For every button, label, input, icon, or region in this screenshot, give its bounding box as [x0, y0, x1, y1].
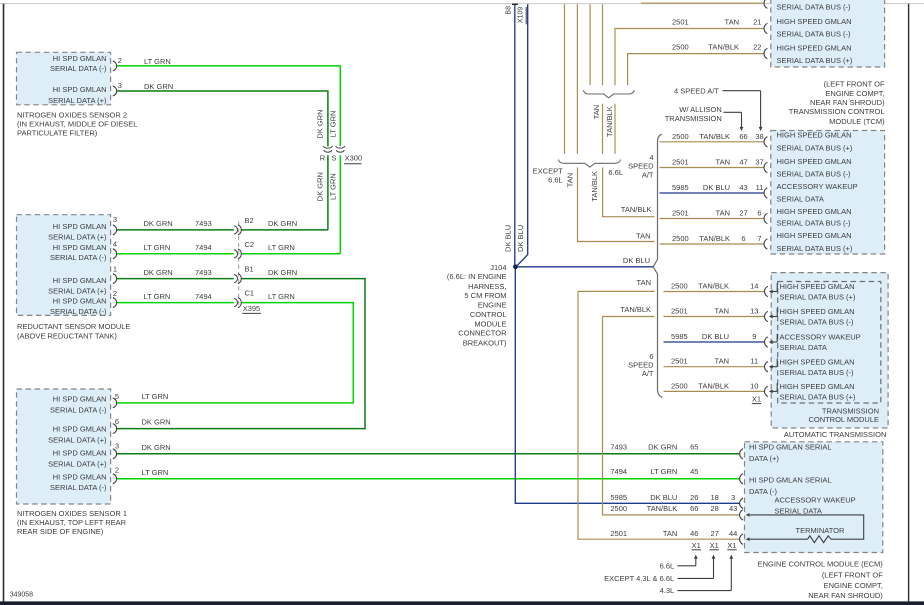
svg-text:TAN/BLK: TAN/BLK	[698, 281, 729, 290]
svg-text:A/T: A/T	[642, 369, 654, 378]
svg-text:HIGH SPEED GMLAN: HIGH SPEED GMLAN	[780, 282, 855, 291]
svg-text:HI SPD GMLAN: HI SPD GMLAN	[53, 296, 107, 305]
svg-text:SERIAL DATA BUS (+): SERIAL DATA BUS (+)	[780, 393, 856, 402]
svg-text:4 SPEED A/T: 4 SPEED A/T	[674, 86, 719, 95]
svg-text:43: 43	[729, 504, 737, 513]
svg-text:X1: X1	[692, 541, 701, 550]
svg-text:MODULE: MODULE	[474, 320, 506, 329]
svg-text:SERIAL DATA (-): SERIAL DATA (-)	[50, 483, 107, 492]
svg-text:TAN/BLK: TAN/BLK	[699, 234, 730, 243]
svg-text:DK GRN: DK GRN	[144, 219, 173, 228]
svg-text:ACCESSORY WAKEUP: ACCESSORY WAKEUP	[780, 333, 861, 342]
svg-text:2500: 2500	[672, 234, 689, 243]
svg-text:TAN/BLK: TAN/BLK	[605, 106, 614, 137]
svg-text:7493: 7493	[610, 442, 627, 451]
svg-text:X395: X395	[243, 304, 261, 313]
svg-text:SERIAL DATA (-): SERIAL DATA (-)	[50, 64, 107, 73]
svg-text:3: 3	[115, 442, 119, 451]
svg-text:10: 10	[750, 381, 758, 390]
svg-text:TAN: TAN	[663, 529, 677, 538]
svg-text:7493: 7493	[195, 219, 212, 228]
svg-text:TAN: TAN	[716, 158, 730, 167]
svg-text:SERIAL DATA (+): SERIAL DATA (+)	[48, 459, 107, 468]
svg-text:TAN: TAN	[715, 306, 729, 315]
svg-text:2501: 2501	[672, 18, 689, 27]
svg-text:SERIAL DATA BUS (+): SERIAL DATA BUS (+)	[777, 56, 853, 65]
svg-text:(IN EXHAUST, MIDDLE OF DIESEL: (IN EXHAUST, MIDDLE OF DIESEL	[17, 120, 137, 129]
svg-text:HIGH SPEED GMLAN: HIGH SPEED GMLAN	[777, 231, 852, 240]
svg-text:SPEED: SPEED	[628, 162, 654, 171]
svg-text:TAN/BLK: TAN/BLK	[621, 205, 652, 214]
svg-text:DATA (+): DATA (+)	[749, 454, 779, 463]
svg-text:5985: 5985	[610, 493, 627, 502]
svg-text:HI SPD GMLAN: HI SPD GMLAN	[53, 424, 107, 433]
svg-text:7494: 7494	[195, 243, 212, 252]
svg-text:HIGH SPEED GMLAN: HIGH SPEED GMLAN	[780, 357, 855, 366]
svg-text:DK BLU: DK BLU	[623, 256, 650, 265]
svg-text:27: 27	[711, 529, 719, 538]
svg-text:21: 21	[753, 18, 761, 27]
svg-text:DK GRN: DK GRN	[268, 268, 297, 277]
svg-text:7494: 7494	[195, 292, 212, 301]
svg-text:DK GRN: DK GRN	[144, 268, 173, 277]
svg-text:11: 11	[750, 357, 758, 366]
svg-text:(IN EXHAUST, TOP LEFT REAR: (IN EXHAUST, TOP LEFT REAR	[17, 518, 127, 527]
svg-text:NITROGEN OXIDES SENSOR 2: NITROGEN OXIDES SENSOR 2	[17, 111, 127, 120]
svg-text:DK GRN: DK GRN	[142, 443, 171, 452]
svg-text:TAN/BLK: TAN/BLK	[698, 381, 729, 390]
svg-text:(ABOVE REDUCTANT TANK): (ABOVE REDUCTANT TANK)	[17, 332, 117, 341]
svg-text:46: 46	[690, 529, 698, 538]
svg-text:HI SPD GMLAN: HI SPD GMLAN	[53, 85, 107, 94]
svg-text:PARTICULATE FILTER): PARTICULATE FILTER)	[17, 129, 98, 138]
svg-text:SERIAL DATA (+): SERIAL DATA (+)	[48, 287, 107, 296]
svg-text:ENGINE COMPT,: ENGINE COMPT,	[825, 89, 884, 98]
svg-text:2: 2	[118, 56, 122, 65]
svg-text:TAN: TAN	[715, 357, 729, 366]
svg-text:X1: X1	[727, 541, 736, 550]
svg-text:HIGH SPEED GMLAN: HIGH SPEED GMLAN	[777, 131, 852, 140]
svg-text:HI SPD GMLAN: HI SPD GMLAN	[53, 243, 107, 252]
svg-text:SERIAL DATA (+): SERIAL DATA (+)	[48, 232, 107, 241]
svg-text:TERMINATOR: TERMINATOR	[796, 526, 845, 535]
svg-text:4: 4	[113, 240, 117, 249]
svg-text:DK GRN: DK GRN	[648, 442, 677, 451]
svg-text:DK BLU: DK BLU	[650, 493, 677, 502]
svg-text:45: 45	[690, 467, 698, 476]
svg-text:349058: 349058	[10, 591, 33, 598]
svg-text:DATA (-): DATA (-)	[749, 487, 778, 496]
svg-text:W/ ALLISON: W/ ALLISON	[679, 105, 722, 114]
svg-text:X1: X1	[710, 541, 719, 550]
svg-text:SERIAL DATA (-): SERIAL DATA (-)	[50, 253, 107, 262]
svg-text:2501: 2501	[671, 357, 688, 366]
svg-text:5985: 5985	[672, 183, 689, 192]
svg-text:LT GRN: LT GRN	[328, 173, 337, 200]
svg-text:SERIAL DATA BUS (-): SERIAL DATA BUS (-)	[780, 368, 855, 377]
svg-text:2500: 2500	[671, 281, 688, 290]
svg-text:X109: X109	[518, 7, 525, 23]
svg-text:2501: 2501	[672, 209, 689, 218]
svg-text:(6.6L: IN ENGINE: (6.6L: IN ENGINE	[447, 272, 507, 281]
svg-text:B2: B2	[245, 216, 254, 225]
svg-text:HI SPD GMLAN: HI SPD GMLAN	[53, 222, 107, 231]
svg-text:HI SPD GMLAN SERIAL: HI SPD GMLAN SERIAL	[749, 476, 832, 485]
svg-text:ENGINE: ENGINE	[478, 301, 507, 310]
svg-text:HI SPD GMLAN SERIAL: HI SPD GMLAN SERIAL	[749, 443, 832, 452]
svg-text:ENGINE CONTROL MODULE (ECM): ENGINE CONTROL MODULE (ECM)	[758, 559, 884, 568]
svg-text:22: 22	[753, 43, 761, 52]
svg-text:6.6L: 6.6L	[608, 168, 623, 177]
svg-text:SERIAL DATA BUS (+): SERIAL DATA BUS (+)	[780, 293, 856, 302]
svg-text:DK BLU: DK BLU	[516, 225, 525, 252]
svg-text:HI SPD GMLAN: HI SPD GMLAN	[53, 54, 107, 63]
svg-text:37: 37	[755, 158, 763, 167]
svg-text:6.6L: 6.6L	[660, 561, 675, 570]
svg-text:CONTROL: CONTROL	[470, 310, 507, 319]
svg-text:DK GRN: DK GRN	[316, 172, 325, 201]
svg-text:X300: X300	[345, 154, 363, 163]
svg-text:R: R	[320, 154, 326, 163]
svg-text:9: 9	[752, 332, 756, 341]
svg-text:TAN: TAN	[636, 232, 650, 241]
svg-text:DK BLU: DK BLU	[504, 225, 513, 252]
svg-text:TRANSMISSION CONTROL: TRANSMISSION CONTROL	[789, 107, 885, 116]
svg-text:TAN/BLK: TAN/BLK	[620, 305, 651, 314]
svg-text:2500: 2500	[610, 504, 627, 513]
svg-text:7494: 7494	[610, 467, 627, 476]
svg-text:(LEFT FRONT OF: (LEFT FRONT OF	[824, 80, 885, 89]
svg-text:2500: 2500	[672, 132, 689, 141]
svg-text:CONTROL MODULE: CONTROL MODULE	[808, 415, 879, 424]
svg-text:MODULE (TCM): MODULE (TCM)	[829, 117, 885, 126]
svg-text:13: 13	[750, 306, 758, 315]
svg-text:SERIAL DATA BUS (+): SERIAL DATA BUS (+)	[777, 244, 853, 253]
svg-text:A/T: A/T	[642, 171, 654, 180]
svg-text:66: 66	[690, 504, 698, 513]
svg-text:TAN: TAN	[716, 209, 730, 218]
svg-text:SERIAL DATA BUS (-): SERIAL DATA BUS (-)	[780, 318, 855, 327]
svg-text:LT GRN: LT GRN	[142, 392, 169, 401]
svg-text:SERIAL DATA (+): SERIAL DATA (+)	[48, 436, 107, 445]
svg-text:SERIAL DATA BUS (-): SERIAL DATA BUS (-)	[777, 30, 852, 39]
svg-text:3: 3	[731, 493, 735, 502]
svg-text:REAR SIDE OF ENGINE): REAR SIDE OF ENGINE)	[17, 527, 104, 536]
svg-text:7: 7	[757, 234, 761, 243]
svg-text:HIGH SPEED GMLAN: HIGH SPEED GMLAN	[777, 17, 852, 26]
svg-text:26: 26	[690, 493, 698, 502]
svg-text:EXCEPT: EXCEPT	[533, 167, 563, 176]
svg-text:SERIAL DATA BUS (-): SERIAL DATA BUS (-)	[777, 2, 852, 11]
svg-text:SERIAL DATA BUS (+): SERIAL DATA BUS (+)	[777, 143, 853, 152]
svg-text:44: 44	[729, 529, 737, 538]
svg-text:HIGH SPEED GMLAN: HIGH SPEED GMLAN	[780, 307, 855, 316]
svg-text:DK BLU: DK BLU	[702, 332, 729, 341]
svg-text:C1: C1	[245, 289, 255, 298]
svg-text:TAN/BLK: TAN/BLK	[590, 171, 599, 202]
svg-text:HI SPD GMLAN: HI SPD GMLAN	[53, 449, 107, 458]
svg-text:NITROGEN OXIDES SENSOR 1: NITROGEN OXIDES SENSOR 1	[17, 509, 127, 518]
svg-text:14: 14	[750, 281, 758, 290]
svg-text:6: 6	[741, 234, 745, 243]
svg-text:6.6L: 6.6L	[548, 176, 563, 185]
svg-text:5985: 5985	[671, 332, 688, 341]
svg-text:28: 28	[711, 504, 719, 513]
svg-text:X1: X1	[752, 394, 761, 403]
svg-text:LT GRN: LT GRN	[144, 57, 171, 66]
svg-text:DK GRN: DK GRN	[142, 418, 171, 427]
svg-text:SERIAL DATA BUS (-): SERIAL DATA BUS (-)	[777, 218, 852, 227]
svg-text:SERIAL DATA: SERIAL DATA	[780, 343, 827, 352]
svg-text:LT GRN: LT GRN	[142, 468, 169, 477]
svg-text:2501: 2501	[672, 158, 689, 167]
svg-text:CONNECTOR: CONNECTOR	[458, 329, 507, 338]
svg-text:TAN: TAN	[637, 278, 651, 287]
svg-text:11: 11	[756, 183, 764, 192]
svg-text:4: 4	[649, 153, 653, 162]
svg-text:38: 38	[755, 132, 763, 141]
svg-text:S: S	[331, 154, 336, 163]
svg-text:REDUCTANT SENSOR MODULE: REDUCTANT SENSOR MODULE	[17, 322, 131, 331]
svg-text:DK GRN: DK GRN	[268, 219, 297, 228]
svg-text:(LEFT FRONT OF: (LEFT FRONT OF	[822, 571, 883, 580]
svg-text:HI SPD GMLAN: HI SPD GMLAN	[53, 276, 107, 285]
svg-text:3: 3	[118, 81, 122, 90]
svg-text:NEAR FAN SHROUD): NEAR FAN SHROUD)	[808, 591, 883, 600]
svg-text:1: 1	[113, 265, 117, 274]
svg-text:BREAKOUT): BREAKOUT)	[463, 338, 507, 347]
svg-text:HIGH SPEED GMLAN: HIGH SPEED GMLAN	[777, 157, 852, 166]
svg-text:SERIAL DATA: SERIAL DATA	[777, 195, 824, 204]
svg-text:LT GRN: LT GRN	[268, 243, 295, 252]
svg-text:SERIAL DATA (+): SERIAL DATA (+)	[48, 96, 107, 105]
svg-text:NEAR FAN SHROUD): NEAR FAN SHROUD)	[810, 98, 885, 107]
svg-text:LT GRN: LT GRN	[268, 292, 295, 301]
svg-text:LT GRN: LT GRN	[328, 111, 337, 138]
svg-text:27: 27	[739, 209, 747, 218]
svg-text:43: 43	[739, 183, 747, 192]
svg-text:EXCEPT 4.3L & 6.6L: EXCEPT 4.3L & 6.6L	[604, 574, 674, 583]
svg-text:LT GRN: LT GRN	[144, 292, 171, 301]
svg-text:7493: 7493	[195, 268, 212, 277]
svg-text:2501: 2501	[671, 306, 688, 315]
svg-text:HARNESS,: HARNESS,	[468, 282, 506, 291]
svg-text:HIGH SPEED GMLAN: HIGH SPEED GMLAN	[777, 43, 852, 52]
svg-text:B1: B1	[245, 265, 254, 274]
svg-text:TAN/BLK: TAN/BLK	[708, 43, 739, 52]
svg-text:2500: 2500	[672, 43, 689, 52]
svg-text:C2: C2	[245, 240, 255, 249]
svg-text:TAN: TAN	[592, 105, 601, 119]
svg-text:TAN/BLK: TAN/BLK	[647, 504, 678, 513]
svg-text:LT GRN: LT GRN	[650, 467, 677, 476]
svg-text:66: 66	[739, 132, 747, 141]
svg-text:SERIAL DATA: SERIAL DATA	[775, 506, 822, 515]
svg-text:TAN/BLK: TAN/BLK	[699, 132, 730, 141]
svg-text:TAN: TAN	[566, 173, 575, 187]
svg-text:B8: B8	[506, 6, 513, 15]
svg-text:6: 6	[757, 209, 761, 218]
svg-text:18: 18	[711, 493, 719, 502]
svg-text:2: 2	[113, 289, 117, 298]
svg-text:HI SPD GMLAN: HI SPD GMLAN	[53, 395, 107, 404]
svg-text:4.3L: 4.3L	[660, 586, 675, 595]
svg-text:2: 2	[115, 465, 119, 474]
svg-text:DK GRN: DK GRN	[144, 82, 173, 91]
svg-text:J104: J104	[490, 263, 506, 272]
svg-text:DK GRN: DK GRN	[316, 109, 325, 138]
svg-text:2500: 2500	[671, 381, 688, 390]
svg-text:TAN: TAN	[725, 18, 739, 27]
svg-text:SERIAL DATA (-): SERIAL DATA (-)	[50, 406, 107, 415]
svg-text:47: 47	[739, 158, 747, 167]
svg-text:2501: 2501	[610, 529, 627, 538]
svg-text:HIGH SPEED GMLAN: HIGH SPEED GMLAN	[777, 207, 852, 216]
svg-text:DK BLU: DK BLU	[703, 183, 730, 192]
svg-text:LT GRN: LT GRN	[144, 243, 171, 252]
svg-text:3: 3	[113, 215, 117, 224]
svg-text:AUTOMATIC TRANSMISSION: AUTOMATIC TRANSMISSION	[784, 430, 887, 439]
svg-text:SERIAL DATA (-): SERIAL DATA (-)	[50, 307, 107, 316]
svg-text:ACCESSORY WAKEUP: ACCESSORY WAKEUP	[777, 182, 858, 191]
svg-text:5 CM FROM: 5 CM FROM	[464, 291, 506, 300]
svg-text:ENGINE COMPT,: ENGINE COMPT,	[824, 581, 883, 590]
svg-text:65: 65	[690, 442, 698, 451]
svg-text:HI SPD GMLAN: HI SPD GMLAN	[53, 472, 107, 481]
svg-text:ACCESSORY WAKEUP: ACCESSORY WAKEUP	[775, 496, 856, 505]
svg-text:TRANSMISSION: TRANSMISSION	[665, 114, 722, 123]
svg-text:SERIAL DATA BUS (-): SERIAL DATA BUS (-)	[777, 170, 852, 179]
svg-text:HIGH SPEED GMLAN: HIGH SPEED GMLAN	[780, 382, 855, 391]
